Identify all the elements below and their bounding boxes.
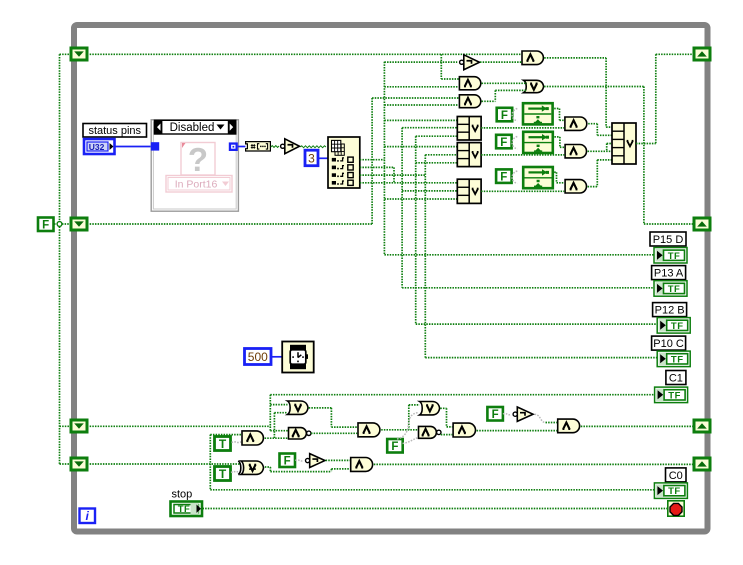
wire: SR3 to OR bt in1 xyxy=(270,404,287,406)
svg-text:stop: stop xyxy=(172,489,193,501)
svg-text:TF: TF xyxy=(668,390,681,401)
squiggle F to NOT b2 xyxy=(503,413,511,414)
wire: net V-B vertical (bool0) xyxy=(383,62,385,255)
wire: OR A out to AND r1 in2 xyxy=(481,127,564,129)
wire: 3 to index array (blue) xyxy=(318,157,328,159)
wire: SR3 boolean xyxy=(87,425,270,427)
wire: bool0 to AND3 bottom xyxy=(384,104,458,106)
squiggle T2 to XOR xyxy=(231,471,240,473)
svg-text:Disabled: Disabled xyxy=(170,122,215,134)
svg-text:T: T xyxy=(219,437,227,451)
wire: bool3 to P10 C indicator xyxy=(425,357,657,359)
shift register right terminal 4 xyxy=(694,458,710,470)
compound OR main (5 inputs) xyxy=(612,123,636,164)
wire: SR4 to C0 indicator xyxy=(210,489,654,491)
wire: index row2 xyxy=(360,166,394,168)
shift register left terminal 4 xyxy=(71,458,87,470)
compound OR B (3 inputs) xyxy=(457,143,481,167)
AND gate b3 xyxy=(358,423,380,437)
wire: init F vertical rail xyxy=(59,54,61,464)
wire: U32 to disable structure (blue) xyxy=(115,146,152,148)
wire: bool1 to P13 A indicator xyxy=(402,287,654,289)
NOT gate (array invert) xyxy=(281,139,300,154)
AND gate b1 xyxy=(242,431,263,445)
wire: NOT b1 out to AND b2 xyxy=(326,459,350,461)
wire: bool0 to NOT input xyxy=(384,61,457,63)
boolean indicator P10 C xyxy=(657,351,690,367)
F constant feedback row 2 xyxy=(496,135,512,149)
boolean indicator P15 D xyxy=(654,248,687,264)
wire: feedback2 out to AND r2 xyxy=(554,136,560,138)
wire: feedback1 out to AND r1 xyxy=(554,108,559,110)
wire: net V-E vertical (bool3) xyxy=(424,155,426,358)
label: P15 D xyxy=(650,232,686,246)
loop condition terminal (stop sign) xyxy=(668,501,684,516)
wire: SR3 to C1 indicator xyxy=(270,394,654,396)
AND gate b2 xyxy=(351,458,373,472)
label: C0 xyxy=(666,468,687,482)
wire: bool3 to OR B input2 xyxy=(425,154,457,156)
NOT gate U-top xyxy=(460,55,480,70)
iteration terminal i xyxy=(80,509,96,524)
wire: SR3 to NAND1 in1 xyxy=(270,430,287,432)
wire: bool0 to AND2 bottom xyxy=(384,86,458,88)
label: P12 B xyxy=(653,303,687,317)
boolean constant T 1 xyxy=(215,437,231,452)
wire: feedback3 out to AND r3 xyxy=(554,171,556,173)
squiggle F to feedback node 1 xyxy=(512,109,517,122)
wire: bool0 to P15 D indicator xyxy=(384,254,654,256)
svg-text:TF: TF xyxy=(671,321,684,332)
numeric control U32 xyxy=(84,139,115,154)
boolean indicator C1 xyxy=(655,387,688,403)
svg-text:C1: C1 xyxy=(669,373,683,385)
boolean constant F (shift register init) xyxy=(38,218,54,232)
AND gate top xyxy=(522,51,543,65)
squiggle F to feedback node 3 xyxy=(512,171,517,184)
F constant feedback row 3 xyxy=(496,169,512,183)
F constant feedback row 1 xyxy=(497,108,513,122)
boolean indicator P13 A xyxy=(654,281,687,297)
wire: OR b2 out xyxy=(440,407,446,409)
OR gate bt xyxy=(288,401,309,414)
AND gate r2 xyxy=(565,145,586,158)
wire: AND r1 out to compound seg2 xyxy=(588,123,597,125)
svg-text:F: F xyxy=(500,137,507,149)
junction at F rail xyxy=(57,222,62,227)
squiggle T1 to AND b1 xyxy=(232,441,242,444)
wire: AND b1 out riser to OR bt in2 xyxy=(273,413,275,439)
svg-text:U32: U32 xyxy=(89,142,105,152)
wire: SR2 boolean xyxy=(87,223,372,225)
wire: XOR out jog xyxy=(265,466,271,468)
svg-text:P12 B: P12 B xyxy=(655,305,685,317)
svg-text:TF: TF xyxy=(671,354,684,365)
wire: AND r2 out to compound seg3+seg4 xyxy=(588,150,612,152)
boolean control stop xyxy=(171,502,203,517)
wire: NAND b2 out to AND b4 xyxy=(441,434,453,436)
AND gate r1 xyxy=(565,117,587,130)
numeric constant 3 xyxy=(305,150,318,166)
wire: index row1 xyxy=(360,159,385,161)
wire: bool0 to OR C input3 xyxy=(384,198,457,200)
wire: bool2 to P12 B indicator xyxy=(416,323,658,325)
wire: net V-C vertical (bool1) xyxy=(401,128,403,288)
svg-text:F: F xyxy=(42,220,49,232)
svg-text:TF: TF xyxy=(668,251,681,262)
wire: bool0 to OR B input1 xyxy=(384,146,457,148)
wire: bool2 to OR A input3 xyxy=(416,135,458,137)
shift register left terminal 3 xyxy=(71,420,87,432)
boolean constant T 2 xyxy=(215,467,231,482)
svg-text:F: F xyxy=(284,456,291,468)
wait ms function xyxy=(282,342,314,373)
svg-text:P13 A: P13 A xyxy=(654,268,684,280)
AND gate b5 xyxy=(558,419,580,433)
wire: XOR out long xyxy=(270,471,331,473)
tunnel out (blue) xyxy=(229,142,238,151)
wire: 500 to wait (blue) xyxy=(271,356,282,358)
wire: bool array zigzag to NOT xyxy=(271,146,279,148)
wire: AND b1 out xyxy=(265,437,288,439)
wire: net V-D vertical (bool2) xyxy=(415,136,417,324)
squiggle F to NOT b1 xyxy=(295,460,303,461)
numeric constant 500 xyxy=(245,349,272,365)
wire: SR1 boolean across top xyxy=(87,53,521,55)
wire: OR B out to AND r2 in2 xyxy=(481,154,564,156)
label: C1 xyxy=(666,371,686,385)
while loop border xyxy=(74,25,708,532)
wire: init stubs to left shift registers xyxy=(60,53,72,55)
wire: AND r3 out up to compound seg5 xyxy=(588,186,598,188)
feedback node 3 xyxy=(523,167,553,188)
XOR gate xyxy=(238,461,263,474)
svg-text:F: F xyxy=(501,110,508,122)
compound OR C (3 inputs) xyxy=(457,179,481,203)
wire: index row4 to OR C input1 xyxy=(360,182,458,184)
wire: AND top out xyxy=(544,57,606,59)
disabled ? placeholder icon xyxy=(181,141,215,178)
svg-text:F: F xyxy=(391,441,398,453)
wire: to AND b5 in1 xyxy=(546,422,557,424)
svg-text:C0: C0 xyxy=(669,470,683,482)
wire: index row3 xyxy=(360,174,426,176)
svg-text:P15 D: P15 D xyxy=(653,234,684,246)
svg-text:F: F xyxy=(500,171,507,183)
NAND gate b2 xyxy=(419,426,441,438)
svg-text:TF: TF xyxy=(668,284,681,295)
wire: bool1 to OR C input2 xyxy=(402,190,457,192)
label: P13 A xyxy=(652,266,686,280)
svg-text:500: 500 xyxy=(248,350,268,364)
wire: AND b5 out to SR3 right xyxy=(581,425,694,427)
svg-text:3: 3 xyxy=(308,152,315,166)
wire: inverted bool array zigzag to index array xyxy=(301,146,326,148)
svg-text:In Port16: In Port16 xyxy=(175,179,218,191)
wire: NOT out to AND top in2 xyxy=(480,61,521,63)
label: status pins xyxy=(83,124,147,138)
wire: bool2 to OR B input3 xyxy=(416,162,458,164)
wire: stop to loop condition xyxy=(203,508,669,510)
wire: index row2 jog down xyxy=(393,167,395,182)
feedback node 1 xyxy=(523,103,553,124)
number to boolean array function xyxy=(246,142,271,151)
wire: branch down to AND2 top input xyxy=(440,54,442,79)
wire: OR out down to SR2 right xyxy=(544,86,644,88)
AND gate r3 xyxy=(565,180,586,193)
svg-text:T: T xyxy=(219,467,227,481)
AND gate 2 xyxy=(459,77,480,90)
shift register right terminal 1 xyxy=(694,48,710,60)
wire: AND2 out to OR in1 xyxy=(482,82,527,84)
svg-text:?: ? xyxy=(188,141,208,178)
index array function xyxy=(328,137,360,188)
wire: SR3 riser xyxy=(269,395,271,431)
F constant b2 xyxy=(387,439,403,453)
wire: SR4 branch vertical xyxy=(209,435,211,490)
label: P10 C xyxy=(652,336,686,350)
wire: OR bt out xyxy=(309,407,332,409)
wire: AND b4 out to AND b5 xyxy=(477,430,557,432)
feedback node 2 xyxy=(523,132,553,153)
NAND gate b1 xyxy=(289,428,311,439)
tunnel in (blue) xyxy=(151,142,159,150)
disable structure header xyxy=(154,120,235,134)
wire: AND b3 out xyxy=(381,429,418,431)
wire: SR4 to AND b1 in1 xyxy=(210,434,241,436)
shift register right terminal 3 xyxy=(694,420,710,432)
wire: bool0 to OR A input1 xyxy=(384,119,457,121)
wire: bool1 to OR A input2 xyxy=(402,127,457,129)
compound OR A (3 inputs) xyxy=(457,117,481,141)
wire: SR4 boolean xyxy=(87,463,240,465)
NOT gate b2 xyxy=(513,407,533,421)
boolean indicator C0 xyxy=(654,483,687,499)
svg-text:P10 C: P10 C xyxy=(653,338,684,350)
shift register left terminal 2 xyxy=(71,218,87,230)
F constant b1 xyxy=(280,454,296,468)
wire: tunnel to number-to-bool-array (blue) xyxy=(238,146,246,148)
svg-text:F: F xyxy=(492,409,499,421)
svg-text:TF: TF xyxy=(668,486,681,497)
wire: OR C out to AND r3 in2 xyxy=(481,190,564,192)
wire: AND3 out to OR in2 xyxy=(482,100,496,102)
squiggle F to feedback node 2 xyxy=(512,137,517,150)
diagram disable structure frame xyxy=(151,120,238,211)
squiggle F b2 up to OR b2 and NAND b2 xyxy=(397,413,418,439)
AND gate b4 xyxy=(453,423,475,437)
OR gate top xyxy=(524,80,544,92)
boolean indicator P12 B xyxy=(657,318,690,334)
AND gate 3 xyxy=(459,95,480,108)
shift register right terminal 2 xyxy=(694,218,710,230)
wire: NAND b1 out to AND b3 xyxy=(311,432,357,434)
disabled In Port16 selector xyxy=(166,176,232,193)
squiggle NOT b2 out jog xyxy=(535,414,546,422)
svg-text:status pins: status pins xyxy=(88,125,141,137)
F constant b3 xyxy=(487,407,503,421)
wire: compound out up to SR1 right xyxy=(636,143,656,145)
OR gate b2 xyxy=(420,402,440,415)
NOT gate b1 xyxy=(306,454,325,468)
wire: AND b2 out to SR4 right xyxy=(374,463,694,465)
shift register left terminal 1 xyxy=(71,48,87,60)
svg-text:TF: TF xyxy=(178,504,191,515)
